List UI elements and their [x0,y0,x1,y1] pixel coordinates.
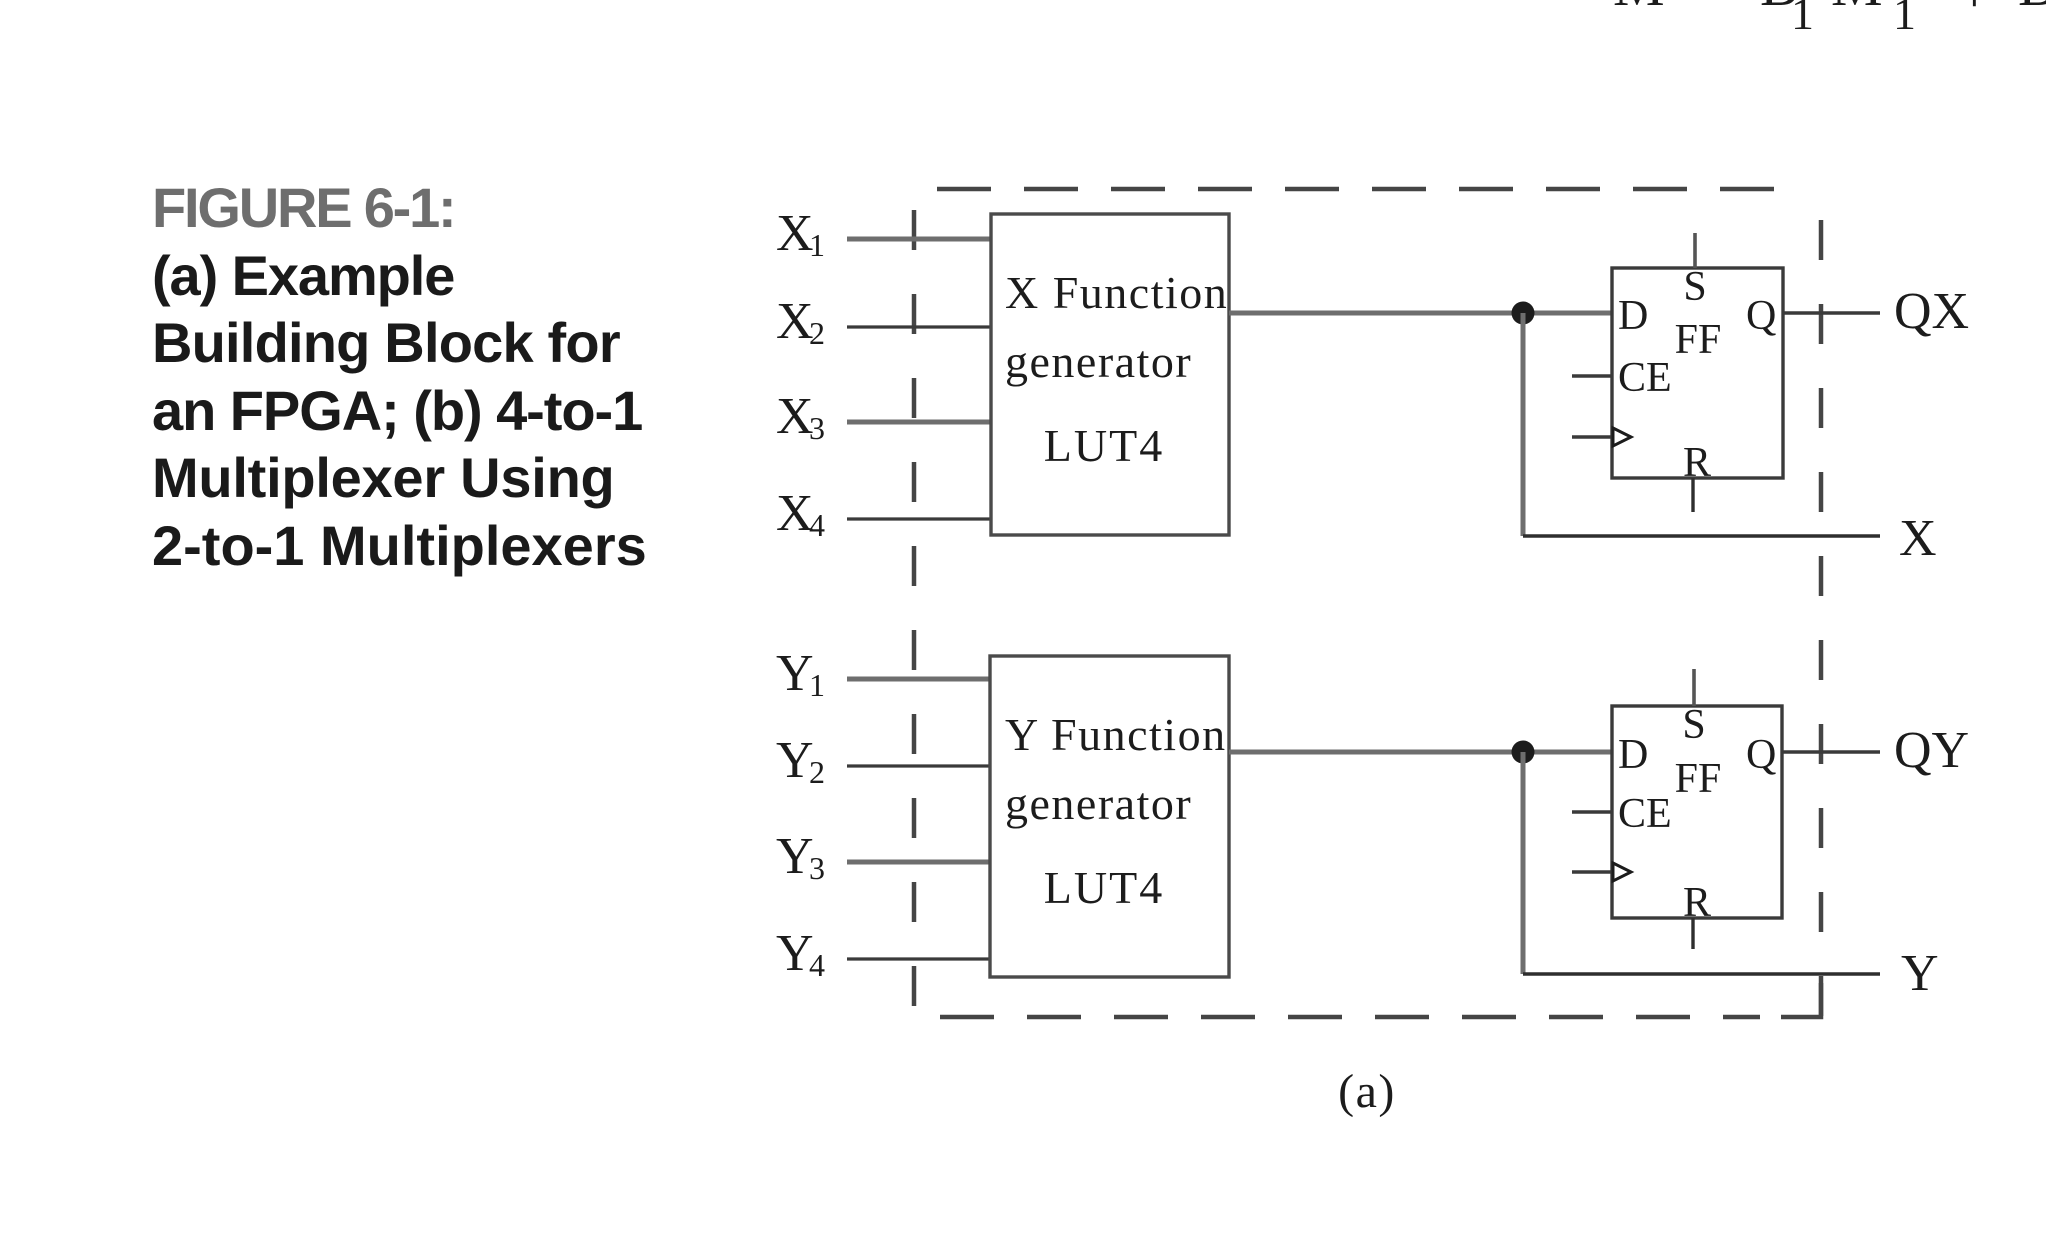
pin stub S (top) [1692,669,1696,706]
node label X2 [776,293,825,351]
svg-text:X: X [776,293,814,350]
svg-text:FF: FF [1675,756,1722,802]
wire input X3 [847,420,991,425]
svg-text:3: 3 [809,410,825,446]
dashed CLB boundary box: left edge [912,189,917,1017]
node label Y4 [776,925,825,983]
node label Y3 [776,828,825,886]
pin stub CE [1572,374,1612,377]
pin stub R (bottom) [1691,918,1694,949]
svg-text:2: 2 [809,754,825,790]
junction node dot (X) [1512,302,1535,325]
svg-text:2-to-1 Multiplexers: 2-to-1 Multiplexers [152,514,647,577]
wire Y output line [1523,972,1880,976]
svg-text:D: D [1618,732,1648,778]
svg-text:+: + [1958,0,1991,25]
svg-text:LUT4: LUT4 [1044,420,1164,471]
svg-text:=: = [1700,0,1733,18]
node label X1 [776,205,825,263]
svg-text:4: 4 [809,947,825,983]
svg-text:Y: Y [1901,945,1939,1002]
svg-text:Q: Q [1746,732,1776,778]
wire input X4 [847,517,991,520]
svg-text:1: 1 [809,667,825,703]
wire X feedback vertical [1521,313,1526,536]
wire X LUT output to D input [1229,311,1612,316]
svg-text:QX: QX [1894,283,1969,340]
svg-text:S: S [1683,264,1706,310]
dashed CLB boundary box: bottom-right corner dash [1781,983,1821,1017]
wire input X1 [847,237,991,242]
svg-text:M: M [1831,0,1883,18]
dashed CLB boundary box: bottom edge [914,1015,1760,1020]
svg-text:4: 4 [809,507,825,543]
svg-text:B: B [2018,0,2046,18]
svg-text:FIGURE 6-1:: FIGURE 6-1: [152,176,455,239]
wire Y LUT output to D input [1229,750,1612,755]
Y function generator LUT4 box U3 [990,656,1229,977]
svg-text:S: S [1682,702,1705,748]
svg-text:Y: Y [776,828,814,885]
svg-text:(a): (a) [1338,1065,1396,1118]
svg-text:FF: FF [1675,317,1722,363]
node label X4 [776,485,825,543]
wire input Y2 [847,764,991,767]
flip-flop U4 box (lower FF) [1612,706,1782,918]
svg-text:1: 1 [1893,0,1916,39]
pin stub CE [1572,810,1612,813]
junction node dot (Y) [1512,741,1535,764]
svg-text:1: 1 [809,227,825,263]
wire input Y3 [847,860,991,865]
svg-text:Y Function: Y Function [1005,709,1227,760]
svg-text:M: M [1613,0,1665,18]
wire Q output to QX [1783,311,1880,315]
svg-text:X Function: X Function [1005,267,1228,318]
svg-text:X: X [776,485,814,542]
wire Q output to QY [1782,750,1880,754]
svg-text:1: 1 [1791,0,1814,39]
svg-text:Y: Y [776,732,814,789]
formula fragment (cut off at top): M = B1 M1 + B1 [1613,0,2046,39]
svg-text:X: X [776,205,814,262]
wire input Y1 [847,677,991,682]
flip-flop U2 box (upper FF) [1612,268,1783,478]
svg-text:Q: Q [1746,293,1776,339]
wire input Y4 [847,957,991,960]
clock edge triangle [1613,863,1631,881]
svg-text:LUT4: LUT4 [1044,862,1164,913]
wire input X2 [847,325,991,328]
svg-text:(a) Example: (a) Example [152,244,454,307]
svg-text:R: R [1683,880,1711,926]
svg-text:Multiplexer Using: Multiplexer Using [152,446,614,509]
svg-text:Building Block for: Building Block for [152,311,620,374]
wire Y feedback vertical [1521,752,1526,974]
svg-text:an FPGA; (b) 4-to-1: an FPGA; (b) 4-to-1 [152,379,642,442]
svg-text:CE: CE [1618,355,1672,401]
wire X output line [1523,534,1880,538]
clock edge triangle [1613,428,1631,446]
svg-text:QY: QY [1894,722,1969,779]
pin stub clock [1572,870,1612,873]
node label X3 [776,388,825,446]
svg-text:Y: Y [776,645,814,702]
pin stub S (top) [1693,233,1697,268]
dashed CLB boundary box: right edge [1819,189,1824,1017]
svg-text:R: R [1683,440,1711,486]
svg-text:3: 3 [809,850,825,886]
X function generator LUT4 box U1 [991,214,1229,535]
svg-text:CE: CE [1618,791,1672,837]
svg-text:generator: generator [1005,336,1192,387]
dashed CLB boundary box: top edge [914,187,1795,192]
svg-text:X: X [776,388,814,445]
svg-text:D: D [1618,293,1648,339]
svg-text:X: X [1899,510,1937,567]
svg-text:2: 2 [809,315,825,351]
pin stub clock [1572,435,1612,438]
pin stub R (bottom) [1691,478,1694,512]
svg-text:generator: generator [1005,778,1192,829]
node label Y1 [776,645,825,703]
svg-text:Y: Y [776,925,814,982]
node label Y2 [776,732,825,790]
